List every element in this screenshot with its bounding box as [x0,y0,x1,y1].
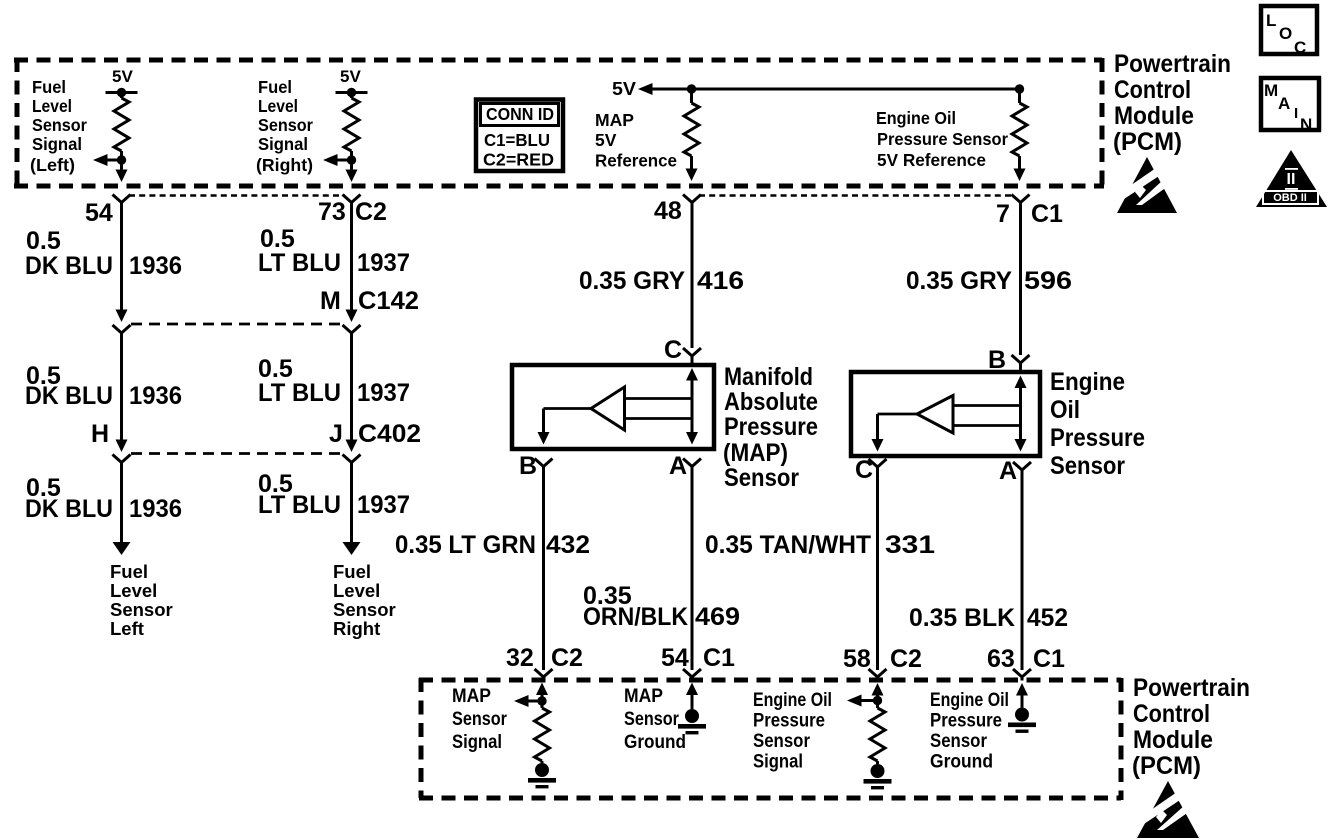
svg-text:Signal: Signal [753,752,803,773]
svg-text:LT BLU: LT BLU [258,249,341,277]
svg-text:Pressure Sensor: Pressure Sensor [877,129,1008,149]
svg-text:C1: C1 [703,644,735,672]
svg-text:A: A [669,452,687,480]
svg-text:Signal: Signal [452,732,502,753]
svg-text:II: II [1287,171,1296,188]
svg-text:1937: 1937 [357,249,410,277]
svg-text:B: B [988,346,1006,374]
svg-text:C2=RED: C2=RED [483,150,554,170]
svg-text:Sensor: Sensor [258,115,313,135]
svg-text:N: N [1300,115,1312,134]
svg-text:LT BLU: LT BLU [258,491,341,519]
svg-text:32: 32 [506,644,534,672]
svg-text:O: O [1279,24,1292,43]
svg-text:5V: 5V [340,67,361,86]
svg-text:Oil: Oil [1050,396,1080,424]
svg-text:Signal: Signal [258,134,308,154]
svg-text:Ground: Ground [624,732,686,753]
svg-text:Reference: Reference [595,151,677,171]
svg-text:M: M [1264,81,1278,100]
svg-text:0.35 LT GRN: 0.35 LT GRN [395,531,536,559]
svg-text:(PCM): (PCM) [1113,128,1182,156]
svg-text:Sensor: Sensor [753,731,811,752]
svg-text:Sensor: Sensor [724,464,799,492]
svg-text:0.5: 0.5 [26,227,61,255]
svg-text:DK BLU: DK BLU [25,382,113,410]
svg-text:Engine Oil: Engine Oil [876,108,956,128]
svg-text:Fuel: Fuel [333,561,371,582]
svg-text:58: 58 [843,645,871,673]
svg-text:5V: 5V [595,130,617,150]
svg-text:Engine Oil: Engine Oil [930,690,1009,711]
svg-text:(Right): (Right) [256,155,313,175]
svg-text:452: 452 [1027,604,1068,632]
svg-text:C2: C2 [890,645,922,673]
svg-text:Sensor: Sensor [32,115,87,135]
svg-text:1936: 1936 [129,382,182,410]
svg-text:(Left): (Left) [30,155,75,175]
svg-text:1936: 1936 [129,495,182,523]
svg-text:0.35 GRY: 0.35 GRY [906,267,1012,295]
svg-text:1937: 1937 [357,491,410,519]
svg-text:63: 63 [987,645,1015,673]
svg-text:596: 596 [1024,267,1072,295]
svg-text:C1: C1 [1031,200,1063,228]
svg-text:MAP: MAP [624,686,663,707]
svg-text:LT BLU: LT BLU [258,379,341,407]
svg-text:0.35 TAN/WHT: 0.35 TAN/WHT [705,531,871,559]
svg-text:Sensor: Sensor [624,709,680,730]
svg-text:Fuel: Fuel [258,77,292,97]
svg-text:Level: Level [110,580,157,601]
svg-text:C2: C2 [355,198,387,226]
svg-text:416: 416 [697,267,744,295]
svg-text:5V: 5V [112,67,133,86]
svg-text:1936: 1936 [129,252,182,280]
svg-text:B: B [519,452,537,480]
svg-text:Absolute: Absolute [724,388,818,416]
svg-text:DK BLU: DK BLU [25,495,113,523]
svg-text:Sensor: Sensor [110,599,173,620]
svg-text:C2: C2 [551,644,583,672]
svg-text:1937: 1937 [357,379,410,407]
svg-text:Pressure: Pressure [1050,424,1145,452]
svg-text:L: L [1266,11,1276,30]
svg-text:Pressure: Pressure [753,711,825,732]
svg-text:Signal: Signal [32,134,82,154]
svg-text:C1=BLU: C1=BLU [484,130,550,150]
svg-text:OBD II: OBD II [1273,192,1307,204]
svg-text:M: M [320,287,341,315]
svg-text:Pressure: Pressure [930,711,1002,732]
svg-text:Powertrain: Powertrain [1133,674,1250,702]
svg-text:Ground: Ground [930,752,993,773]
svg-text:H: H [91,420,109,448]
svg-text:432: 432 [546,531,590,559]
svg-text:54: 54 [85,199,113,227]
svg-text:Control: Control [1133,700,1210,728]
svg-text:Sensor: Sensor [333,599,396,620]
svg-text:0.35 BLK: 0.35 BLK [909,604,1015,632]
svg-text:Module: Module [1133,726,1213,754]
svg-text:(MAP): (MAP) [723,439,788,467]
svg-text:5V Reference: 5V Reference [877,150,986,170]
svg-text:Manifold: Manifold [724,363,813,391]
svg-text:7: 7 [996,200,1010,228]
svg-text:469: 469 [695,603,740,631]
svg-text:Level: Level [258,96,298,116]
svg-text:MAP: MAP [595,110,634,130]
svg-text:Pressure: Pressure [724,413,818,441]
svg-text:Fuel: Fuel [32,77,66,97]
svg-text:C: C [664,336,682,364]
svg-text:MAP: MAP [452,686,491,707]
svg-text:0.35 GRY: 0.35 GRY [579,267,685,295]
svg-text:331: 331 [885,531,935,559]
svg-text:ORN/BLK: ORN/BLK [583,603,688,631]
svg-text:Level: Level [32,96,72,116]
svg-text:Engine Oil: Engine Oil [753,690,832,711]
svg-text:DK BLU: DK BLU [25,252,113,280]
svg-text:Sensor: Sensor [1050,452,1125,480]
svg-text:48: 48 [654,197,682,225]
svg-text:Sensor: Sensor [930,731,988,752]
svg-text:Engine: Engine [1050,368,1125,396]
svg-text:(PCM): (PCM) [1132,752,1201,780]
svg-text:Fuel: Fuel [110,561,148,582]
svg-text:Sensor: Sensor [452,709,508,730]
svg-text:C1: C1 [1033,645,1065,673]
svg-text:C: C [1294,38,1306,57]
svg-text:C142: C142 [358,287,419,315]
svg-text:A: A [1278,94,1290,113]
svg-text:CONN ID: CONN ID [486,104,554,124]
svg-text:C402: C402 [358,420,421,448]
svg-text:54: 54 [661,644,689,672]
svg-text:Left: Left [110,618,144,639]
svg-text:Control: Control [1114,76,1191,104]
svg-text:Powertrain: Powertrain [1114,50,1231,78]
svg-text:Level: Level [333,580,380,601]
svg-text:73: 73 [318,198,346,226]
svg-text:5V: 5V [612,79,636,99]
svg-text:I: I [1294,105,1298,122]
svg-text:Module: Module [1114,102,1194,130]
svg-text:J: J [329,420,343,448]
svg-text:Right: Right [333,618,380,639]
